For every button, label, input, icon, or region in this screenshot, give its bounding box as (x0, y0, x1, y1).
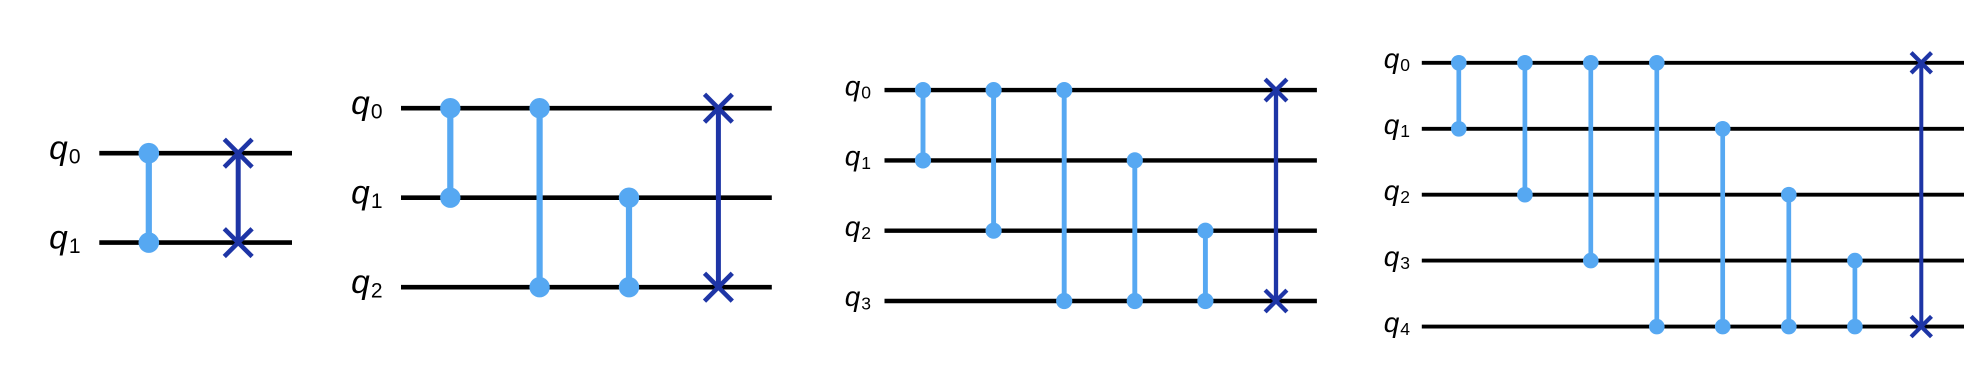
circuit 2 (3 qubits) (351, 85, 772, 302)
CZ gate q1-q3 (1127, 152, 1143, 309)
CZ gate q0-q4 (1649, 55, 1665, 334)
wire q2 (1422, 193, 1964, 197)
wire q4 (1422, 325, 1964, 329)
wire q0 (1422, 61, 1964, 65)
CZ gate q0-q2 (1517, 55, 1533, 203)
SWAP gate q0-q4 (1911, 53, 1931, 337)
CZ gate q0-q3 (1583, 55, 1599, 268)
wire q3 (1422, 259, 1964, 263)
SWAP gate q0-q3 (1265, 79, 1287, 312)
wire q1 (401, 195, 772, 200)
CZ gate q2-q3 (1197, 223, 1213, 310)
wire q2 (401, 285, 772, 290)
circuit 4 (5 qubits) (1384, 43, 1964, 339)
wire q0 (99, 151, 292, 156)
circuit 1 (2 qubits) (49, 130, 292, 258)
wire q0 (885, 88, 1317, 92)
CZ gate q1-q4 (1715, 121, 1731, 334)
wire q1 (885, 158, 1317, 162)
CZ gate q0-q1 (139, 143, 160, 253)
SWAP gate q0-q2 (705, 94, 733, 301)
wire q1 (99, 240, 292, 245)
wire q1 (1422, 127, 1964, 131)
CZ gate q0-q1 (1451, 55, 1467, 137)
CZ gate q0-q3 (1056, 82, 1072, 309)
CZ gate q2-q4 (1781, 187, 1797, 335)
wire q0 (401, 106, 772, 111)
CZ gate q1-q2 (619, 188, 639, 298)
CZ gate q0-q1 (440, 98, 460, 208)
CZ gate q0-q1 (915, 82, 931, 168)
wire q2 (885, 228, 1317, 232)
SWAP gate q0-q1 (224, 139, 252, 256)
CZ gate q0-q2 (986, 82, 1002, 239)
CZ gate q3-q4 (1847, 253, 1863, 335)
circuit 3 (4 qubits) (845, 70, 1317, 313)
wire q3 (885, 299, 1317, 303)
CZ gate q0-q2 (529, 98, 549, 297)
